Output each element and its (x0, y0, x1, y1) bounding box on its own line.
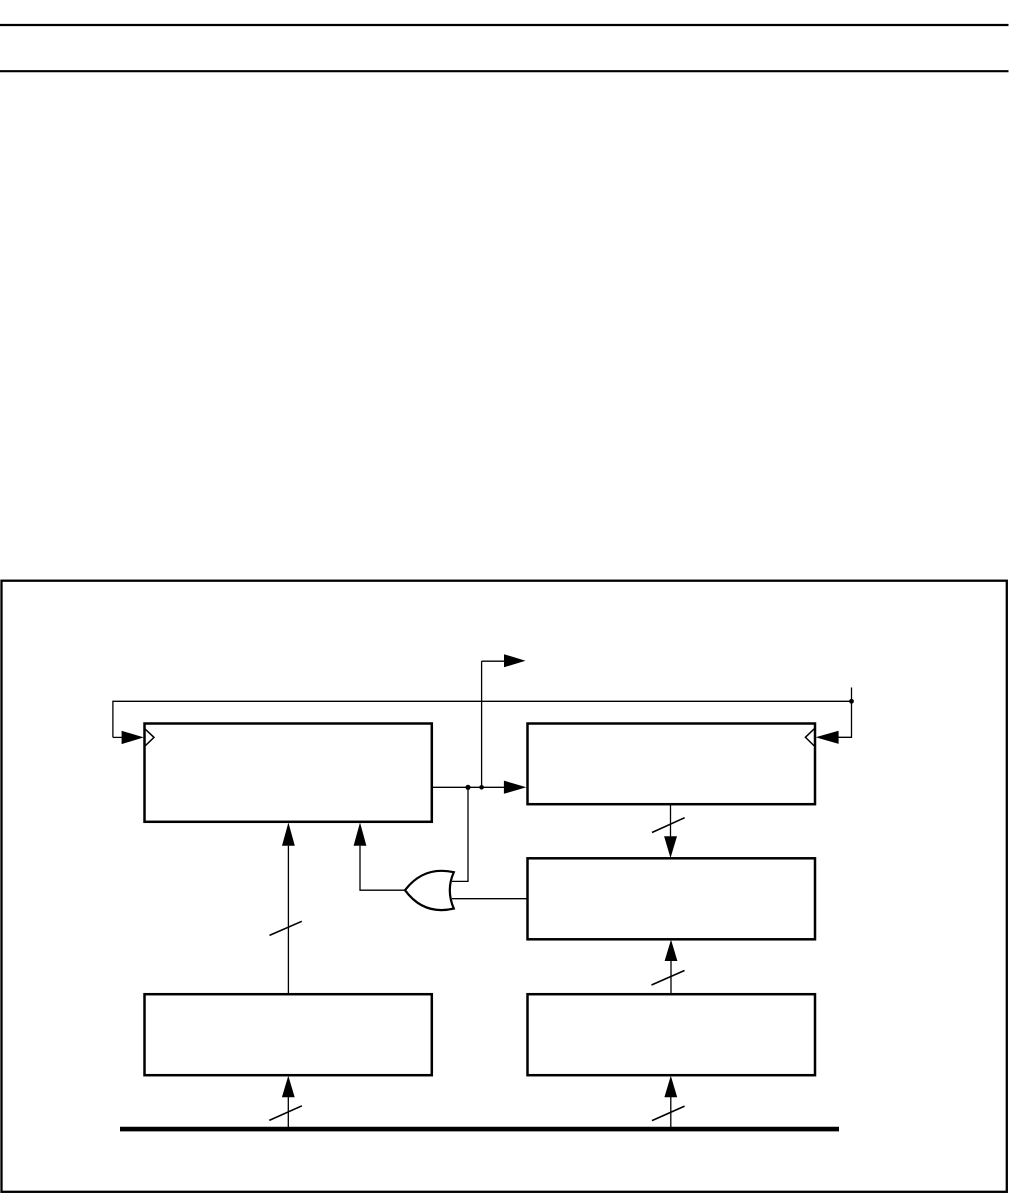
header rule bottom (0, 70, 1009, 72)
wire: down to OR gate top input (452, 787, 468, 881)
figure frame (2, 581, 1007, 1192)
block bottom-right register (528, 994, 816, 1075)
bus slash bottom right (652, 1106, 685, 1121)
wire: bottom-left register to TCNTn (287, 846, 289, 994)
arrow top output (right-pointing) (504, 654, 526, 667)
arrow up into bottom-left register (282, 1076, 295, 1097)
junction dot right (849, 699, 854, 704)
wire: top output horizontal (482, 660, 505, 662)
arrow down into comparator top (664, 836, 677, 858)
wire: TCNTn to OCRnx connector (432, 786, 505, 788)
block comparator (middle-right) (528, 858, 816, 939)
bus slash right mid (652, 971, 685, 986)
wire: OCRnx down to comparator (670, 804, 672, 837)
block OCRnx (top-right register) (528, 724, 816, 805)
arrow into OCRnx clock (left-pointing) (816, 731, 839, 744)
wire: right drop to clock of OCRnx (838, 701, 852, 737)
wire: OR gate output to TCNTn count input (360, 846, 406, 890)
arrow into TCNTn clock (right-pointing) (122, 731, 144, 744)
wire: output tap vertical (481, 661, 483, 787)
header rule top (0, 24, 1009, 26)
clock chevron on block TCNTn (145, 729, 154, 746)
arrow into OCRnx left (right-pointing) (504, 781, 526, 794)
wire: OR gate bottom input from comparator (452, 898, 528, 900)
wire: bottom-right register up to comparator (670, 961, 672, 994)
bus slash bottom left (269, 1106, 302, 1121)
junction dot A (465, 785, 470, 790)
block bottom-left register (145, 994, 432, 1075)
wire: left horizontal to clock of TCNTn (113, 736, 123, 738)
OR gate (pointing left) (405, 871, 454, 910)
wire: stub above junction (851, 688, 853, 702)
arrow up into TCNTn (from OR gate) (354, 823, 367, 846)
bus slash right upper (652, 818, 685, 833)
arrow up into bottom-right register (664, 1076, 677, 1097)
wire: bus up to bottom-right register (670, 1097, 672, 1129)
data bus (thick line at bottom) (120, 1127, 839, 1132)
arrow up into TCNTn (from register) (282, 823, 295, 846)
wire: bus up to bottom-left register (287, 1097, 289, 1129)
arrow up into comparator bottom (665, 940, 678, 961)
bus slash left mid (270, 921, 302, 935)
junction dot B (479, 785, 484, 790)
wire: top feedback line (113, 701, 852, 737)
block TCNTn (top-left register) (145, 724, 432, 822)
clock chevron on block OCRnx (805, 729, 814, 746)
